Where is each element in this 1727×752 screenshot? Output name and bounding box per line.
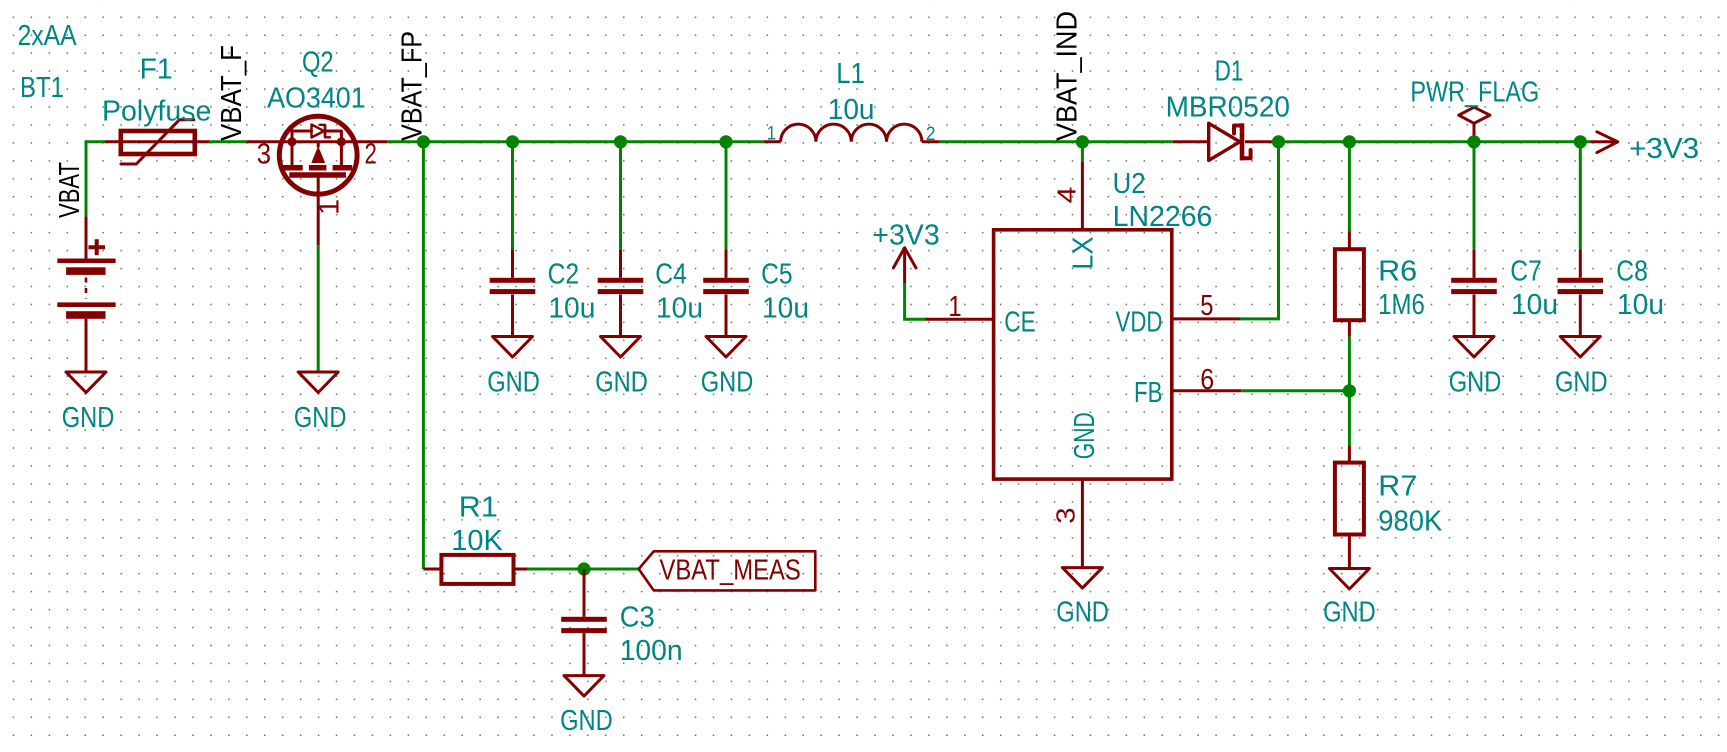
wire bus to R6	[1348, 142, 1351, 231]
value Polyfuse	[102, 96, 211, 128]
value 10u of C5	[762, 292, 809, 324]
+3V3 output text	[1629, 133, 1699, 165]
ground at R7	[1329, 569, 1369, 590]
value 100n	[620, 635, 683, 667]
value MBR0520	[1166, 92, 1290, 124]
pin 1 of U2	[948, 291, 961, 323]
wire BT1 to F1	[86, 142, 105, 217]
svg-text:GND: GND	[1069, 412, 1101, 459]
reference D1	[1215, 55, 1244, 87]
value 10u of L1	[828, 94, 875, 126]
global label VBAT_MEAS	[639, 551, 816, 590]
capacitor C7	[1451, 250, 1497, 337]
local label VBAT_FP	[396, 31, 428, 141]
svg-text:+3V3: +3V3	[1629, 133, 1699, 165]
svg-text:GND: GND	[595, 366, 648, 398]
transistor Q2	[246, 116, 387, 245]
reference C7	[1510, 255, 1542, 287]
svg-text:2xAA: 2xAA	[18, 20, 78, 52]
GND text at C5	[701, 366, 754, 398]
reference U2	[1113, 168, 1146, 200]
wire bus to C2	[511, 142, 514, 250]
value 10u of C7	[1511, 289, 1558, 321]
pin 3 of U2	[1051, 507, 1081, 523]
svg-text:GND: GND	[1323, 597, 1376, 629]
wire R1 to VBAT_MEAS	[527, 568, 639, 571]
GND text at C3	[560, 705, 613, 737]
wire +3V3 to CE pin	[905, 284, 925, 319]
svg-text:10u: 10u	[762, 292, 809, 324]
svg-text:L1: L1	[836, 58, 865, 90]
svg-text:C3: C3	[620, 602, 655, 634]
junction VBAT_FP	[417, 135, 430, 148]
reference C2	[548, 258, 580, 290]
svg-text:GND: GND	[1449, 366, 1502, 398]
wire bus to C4	[619, 142, 622, 250]
polyfuse F1	[105, 120, 209, 164]
op-amp U2 body	[924, 162, 1241, 568]
junction VBAT_IND	[1076, 135, 1089, 148]
wire Q2 gate to ground	[317, 245, 320, 372]
capacitor C3	[561, 569, 607, 676]
wire bus to C5	[725, 142, 728, 250]
GND text at C2	[487, 366, 540, 398]
svg-text:VBAT_MEAS: VBAT_MEAS	[660, 555, 801, 587]
local label VBAT_F	[216, 45, 248, 141]
svg-text:3: 3	[1051, 507, 1081, 523]
svg-text:C2: C2	[548, 258, 580, 290]
junction at C8	[1574, 135, 1587, 148]
value 1M6	[1378, 289, 1425, 321]
capacitor C4	[598, 250, 644, 337]
value LN2266	[1113, 201, 1213, 233]
svg-text:GND: GND	[1056, 597, 1109, 629]
power +3V3 at CE	[893, 248, 916, 284]
junction at C4	[614, 135, 627, 148]
svg-text:1M6: 1M6	[1378, 289, 1425, 321]
pin name LX	[1068, 236, 1100, 269]
pin 4 of U2	[1052, 187, 1082, 204]
svg-text:1: 1	[948, 291, 961, 323]
reference R7	[1378, 470, 1417, 502]
reference F1	[140, 54, 173, 86]
GND text at R7	[1323, 597, 1376, 629]
wire FB to R7	[1348, 391, 1351, 445]
svg-text:Q2: Q2	[302, 47, 334, 79]
svg-text:10u: 10u	[656, 292, 703, 324]
value 10u of C2	[548, 292, 595, 324]
svg-text:FB: FB	[1134, 377, 1163, 409]
reference R6	[1378, 255, 1417, 287]
svg-text:GND: GND	[487, 366, 540, 398]
ground at Q2	[298, 372, 338, 393]
wire R6 to FB	[1348, 337, 1351, 391]
svg-text:C7: C7	[1510, 255, 1542, 287]
reference C8	[1616, 255, 1648, 287]
power flag PWR_FLAG	[1459, 107, 1490, 142]
ground at C2	[493, 337, 533, 358]
svg-text:100n: 100n	[620, 635, 683, 667]
pin 1 of L1	[767, 124, 776, 145]
junction at C5	[719, 135, 732, 148]
ground at C3	[564, 676, 604, 697]
svg-text:VBAT_F: VBAT_F	[216, 45, 248, 141]
svg-text:CE: CE	[1004, 306, 1035, 338]
svg-text:VDD: VDD	[1116, 306, 1163, 338]
svg-text:MBR0520: MBR0520	[1166, 92, 1290, 124]
pin 6 of U2	[1200, 364, 1214, 396]
ground at C5	[706, 337, 746, 358]
wire VDD riser	[1241, 142, 1278, 319]
svg-text:GND: GND	[1555, 366, 1608, 398]
GND text at Q2	[294, 402, 347, 434]
capacitor C2	[490, 250, 536, 337]
reference BT1	[20, 72, 64, 104]
label 2xAA	[18, 20, 78, 52]
svg-text:R6: R6	[1378, 255, 1417, 287]
svg-text:1: 1	[767, 124, 776, 145]
pin 1 of Q2	[313, 199, 345, 215]
svg-text:10u: 10u	[1511, 289, 1558, 321]
svg-text:1: 1	[313, 199, 345, 215]
ground at C4	[601, 337, 641, 358]
pin 3 of Q2	[257, 139, 271, 171]
svg-text:980K: 980K	[1378, 506, 1443, 538]
svg-text:C8: C8	[1616, 255, 1648, 287]
junction at C2	[506, 135, 519, 148]
svg-text:F1: F1	[140, 54, 173, 86]
pin 5 of U2	[1200, 290, 1213, 322]
ground at C7	[1454, 337, 1494, 358]
power arrow +3V3 output	[1590, 132, 1618, 153]
svg-text:4: 4	[1052, 187, 1082, 204]
svg-text:3: 3	[257, 139, 271, 171]
wire bus to C8	[1579, 142, 1582, 250]
svg-text:AO3401: AO3401	[267, 83, 366, 115]
svg-text:10u: 10u	[1617, 289, 1664, 321]
junction FB	[1343, 384, 1356, 397]
capacitor C5	[703, 250, 749, 337]
reference Q2	[302, 47, 334, 79]
svg-text:VBAT_IND: VBAT_IND	[1052, 11, 1084, 141]
ground at BT1	[66, 372, 106, 393]
reference C5	[761, 258, 793, 290]
local label VBAT	[54, 162, 86, 218]
reference C3	[620, 602, 655, 634]
pin 2 of L1	[926, 124, 936, 145]
value 980K	[1378, 506, 1443, 538]
svg-text:GND: GND	[701, 366, 754, 398]
svg-text:VBAT_FP: VBAT_FP	[396, 31, 428, 141]
svg-text:5: 5	[1200, 290, 1213, 322]
resistor R7	[1335, 445, 1364, 568]
svg-text:10u: 10u	[828, 94, 875, 126]
junction at C3	[577, 562, 590, 575]
PWR_FLAG text	[1410, 76, 1539, 108]
value 10u of C8	[1617, 289, 1664, 321]
svg-text:C4: C4	[655, 258, 687, 290]
wire FB to divider	[1241, 389, 1349, 392]
GND text at U2	[1056, 597, 1109, 629]
junction at C7	[1467, 135, 1480, 148]
reference C4	[655, 258, 687, 290]
local label VBAT_IND	[1052, 11, 1084, 141]
svg-text:2: 2	[365, 138, 377, 170]
value 10u of C4	[656, 292, 703, 324]
resistor R6	[1335, 231, 1364, 337]
reference L1	[836, 58, 865, 90]
wire D1 to output	[1279, 140, 1591, 143]
svg-text:GND: GND	[62, 402, 115, 434]
wire L1 to D1	[939, 140, 1173, 143]
battery BT1	[57, 216, 115, 372]
resistor R1	[423, 555, 527, 584]
svg-text:PWR_FLAG: PWR_FLAG	[1410, 76, 1539, 108]
svg-text:BT1: BT1	[20, 72, 64, 104]
GND text at BT1	[62, 402, 115, 434]
capacitor C8	[1558, 250, 1604, 337]
svg-text:10u: 10u	[548, 292, 595, 324]
junction at R6	[1343, 135, 1356, 148]
value 10K	[451, 525, 503, 557]
wire bus to LX pin	[1081, 142, 1084, 162]
ground at C8	[1560, 337, 1600, 358]
value AO3401	[267, 83, 366, 115]
pin name GND of U2	[1069, 412, 1101, 459]
svg-text:R7: R7	[1378, 470, 1417, 502]
pin name CE	[1004, 306, 1035, 338]
junction after D1	[1272, 135, 1285, 148]
GND text at C4	[595, 366, 648, 398]
svg-text:VBAT: VBAT	[54, 162, 86, 218]
svg-text:GND: GND	[560, 705, 613, 737]
svg-text:+3V3: +3V3	[872, 219, 939, 251]
svg-text:Polyfuse: Polyfuse	[102, 96, 211, 128]
reference R1	[459, 492, 498, 524]
diode D1	[1173, 123, 1273, 160]
pin name VDD	[1116, 306, 1163, 338]
ground at U2	[1062, 568, 1102, 589]
GND text at C7	[1449, 366, 1502, 398]
svg-text:C5: C5	[761, 258, 793, 290]
inductor L1	[764, 124, 939, 142]
svg-text:LX: LX	[1068, 236, 1100, 269]
svg-text:GND: GND	[294, 402, 347, 434]
wire VBAT_FP riser	[422, 142, 425, 569]
svg-text:U2: U2	[1113, 168, 1146, 200]
GND text at C8	[1555, 366, 1608, 398]
pin name FB	[1134, 377, 1163, 409]
svg-text:LN2266: LN2266	[1113, 201, 1213, 233]
wire bus to C7	[1473, 142, 1476, 250]
wire Q2 to L1	[387, 140, 764, 143]
wire F1 to Q2	[209, 140, 246, 143]
svg-text:10K: 10K	[451, 525, 503, 557]
svg-text:R1: R1	[459, 492, 498, 524]
svg-text:2: 2	[926, 124, 936, 145]
svg-text:D1: D1	[1215, 55, 1244, 87]
+3V3 text at CE	[872, 219, 939, 251]
svg-text:6: 6	[1200, 364, 1214, 396]
pin 2 of Q2	[365, 138, 377, 170]
